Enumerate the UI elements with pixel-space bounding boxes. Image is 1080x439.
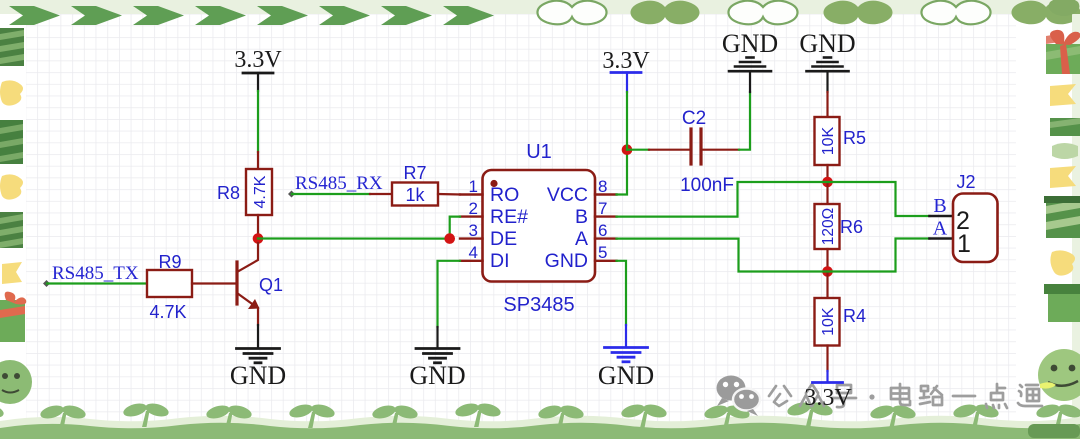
svg-text:B: B	[575, 206, 588, 228]
svg-text:R7: R7	[403, 163, 426, 183]
IC U1 SP3485 body	[483, 141, 596, 316]
power 3.3V top-left	[234, 47, 282, 91]
resistor R4 10K	[815, 298, 867, 346]
svg-text:3: 3	[469, 221, 478, 240]
wire	[436, 327, 438, 347]
svg-text:RO: RO	[490, 184, 519, 206]
svg-text:RS485_TX: RS485_TX	[52, 263, 139, 284]
svg-text:10K: 10K	[820, 126, 837, 155]
wechat icon	[717, 376, 761, 417]
svg-text:J2: J2	[956, 172, 975, 192]
svg-text:Q1: Q1	[259, 275, 283, 295]
ground GND (under Q1)	[237, 349, 280, 363]
svg-text:GND: GND	[598, 361, 654, 390]
svg-text:10K: 10K	[820, 307, 837, 336]
wire	[739, 92, 750, 150]
wire	[649, 149, 690, 151]
pin 2 RE#	[460, 215, 483, 217]
wire pin5 to gnd	[617, 261, 627, 325]
wire	[826, 272, 828, 299]
wire B net pin7	[617, 182, 930, 217]
pin 6 A	[595, 237, 617, 239]
svg-text:6: 6	[598, 221, 607, 240]
svg-text:R4: R4	[843, 306, 866, 326]
capacitor C2 100nF	[680, 108, 734, 196]
wire pin8 vcc	[617, 150, 628, 195]
svg-text:4: 4	[469, 243, 478, 262]
wire DI down	[438, 261, 461, 327]
svg-text:R9: R9	[158, 252, 181, 272]
svg-text:1k: 1k	[405, 185, 425, 205]
svg-text:GND: GND	[409, 361, 465, 390]
svg-text:GND: GND	[230, 361, 286, 390]
resistor R7 1k	[392, 163, 438, 206]
resistor R5 10K	[815, 117, 867, 165]
svg-text:R8: R8	[217, 183, 240, 203]
svg-text:DI: DI	[490, 250, 510, 272]
bottom border	[0, 400, 1080, 439]
svg-text:4.7K: 4.7K	[252, 175, 269, 208]
resistor R8 4.7K	[217, 169, 272, 215]
wire stub marker	[43, 280, 50, 287]
wire	[826, 346, 828, 372]
svg-text:C2: C2	[682, 108, 706, 129]
pin 4 DI	[460, 260, 483, 262]
pin 5 GND	[595, 260, 617, 262]
wire	[703, 149, 740, 151]
svg-text:3.3V: 3.3V	[234, 47, 282, 73]
wire stub marker	[288, 191, 295, 198]
top light strip	[0, 0, 1080, 14]
wire	[826, 165, 828, 182]
svg-text:U1: U1	[526, 141, 552, 163]
wire	[292, 193, 370, 195]
svg-text:A: A	[575, 228, 588, 250]
pin 1 RO	[460, 193, 483, 195]
svg-text:RS485_RX: RS485_RX	[295, 173, 383, 194]
svg-text:1: 1	[957, 230, 971, 258]
node B junction	[822, 177, 833, 188]
left border strip	[0, 28, 32, 404]
wire	[370, 193, 392, 195]
wire A net pin6	[617, 239, 930, 272]
ground GND (under DI)	[416, 349, 459, 363]
node collector junction	[253, 233, 264, 244]
svg-text:5: 5	[598, 243, 607, 262]
wire	[257, 215, 259, 239]
svg-text:120Ω: 120Ω	[820, 208, 837, 245]
svg-text:A: A	[933, 218, 948, 240]
svg-text:8: 8	[598, 177, 607, 196]
node DE junction	[444, 233, 455, 244]
svg-text:R5: R5	[843, 128, 866, 148]
power 3.3V bottom flipped	[804, 371, 852, 411]
wire base	[192, 282, 236, 284]
svg-text:VCC: VCC	[547, 184, 588, 206]
wire	[626, 92, 628, 150]
pin stub J2-1	[930, 237, 954, 240]
wire	[826, 72, 828, 92]
pin 8 VCC	[595, 193, 617, 195]
svg-text:GND: GND	[722, 29, 778, 58]
wire	[257, 325, 259, 347]
wire	[826, 249, 828, 272]
svg-text:100nF: 100nF	[680, 175, 734, 196]
bottom corner tag	[1028, 424, 1080, 438]
svg-text:1: 1	[469, 177, 478, 196]
svg-text:2: 2	[469, 199, 478, 218]
node vcc junction	[622, 144, 633, 155]
top chevron arrows	[9, 6, 494, 25]
transistor Q1	[237, 243, 283, 325]
wire	[257, 152, 259, 169]
svg-text:GND: GND	[799, 29, 855, 58]
svg-text:B: B	[933, 195, 946, 217]
ground GND top flipped (over C2)	[729, 58, 771, 72]
svg-text:3.3V: 3.3V	[602, 48, 650, 74]
wire	[257, 91, 259, 152]
wire RE#/DE tie	[450, 217, 460, 239]
pin 7 B	[595, 215, 617, 217]
wire collector to DE/RE node	[258, 237, 450, 239]
wire	[826, 182, 828, 204]
resistor R9 4.7K	[147, 252, 192, 322]
svg-text:7: 7	[598, 199, 607, 218]
top hearts row	[537, 1, 1080, 25]
svg-text:DE: DE	[490, 228, 517, 250]
pin stub J2-2	[930, 215, 954, 218]
wire	[47, 282, 147, 284]
wire vcc to C2	[627, 149, 649, 151]
wire	[749, 72, 751, 92]
svg-text:4.7K: 4.7K	[149, 302, 186, 322]
right border strip	[1038, 0, 1080, 425]
ground GND blue	[605, 348, 648, 362]
resistor R6 120	[815, 204, 864, 249]
svg-text:RE#: RE#	[490, 206, 528, 228]
wire	[625, 325, 627, 346]
power 3.3V mid	[602, 48, 650, 92]
svg-text:SP3485: SP3485	[503, 294, 574, 316]
svg-text:3.3V: 3.3V	[804, 385, 852, 411]
node A junction	[822, 266, 833, 277]
wire	[826, 92, 828, 117]
ground GND top flipped (over R5)	[807, 58, 849, 72]
svg-text:R6: R6	[840, 217, 863, 237]
wire	[438, 193, 460, 196]
connector J2	[953, 172, 998, 262]
gray chinese text strokes	[769, 384, 1042, 408]
svg-text:GND: GND	[545, 250, 588, 272]
pin 3 DE	[460, 237, 483, 239]
